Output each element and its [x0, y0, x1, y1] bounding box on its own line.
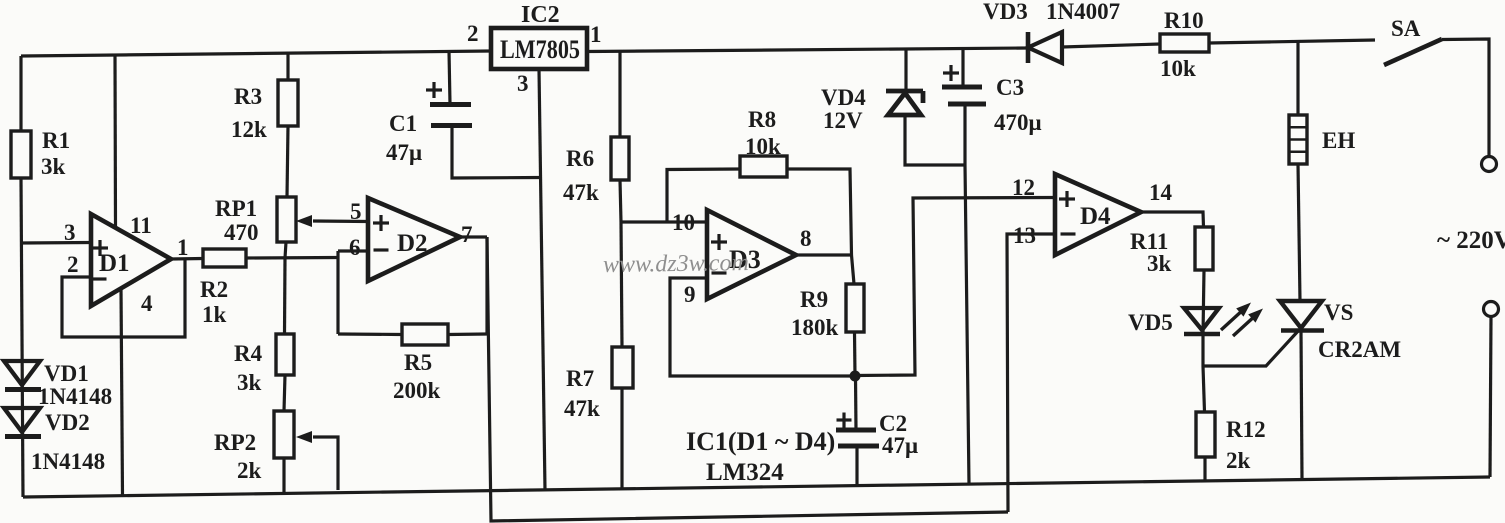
svg-text:2: 2	[467, 21, 479, 46]
resistor R8	[740, 156, 787, 177]
wire R8 right down to output	[787, 169, 852, 255]
wire VS gate	[1203, 330, 1299, 366]
svg-text:R3: R3	[234, 84, 262, 109]
wire D1 pin11 supply	[113, 55, 117, 228]
wire D2 output	[460, 235, 487, 238]
svg-text:3: 3	[517, 71, 529, 96]
voltage regulator IC2 LM7805	[491, 28, 587, 69]
svg-text:7: 7	[461, 222, 473, 247]
wire node to R7	[621, 222, 622, 347]
wire C2 top	[854, 376, 858, 430]
terminal circle bottom	[1484, 302, 1499, 317]
svg-text:12: 12	[1012, 175, 1035, 200]
wire RP2 bottom to ground	[282, 458, 285, 494]
switch SA blade	[1384, 39, 1442, 65]
resistor R7	[612, 347, 633, 388]
svg-text:VD5: VD5	[1128, 310, 1173, 335]
svg-text:SA: SA	[1391, 16, 1421, 41]
svg-text:1N4148: 1N4148	[31, 449, 105, 474]
minus sign D2 inverting input	[374, 248, 389, 251]
svg-text:VD4: VD4	[821, 85, 866, 110]
resistor R4	[276, 334, 294, 375]
resistor R9	[846, 284, 864, 332]
wire R2 to node	[246, 256, 338, 260]
svg-text:www.dz3w.com: www.dz3w.com	[603, 250, 749, 278]
svg-text:R7: R7	[566, 366, 594, 391]
wire D2 pin6 input	[338, 249, 368, 252]
capacitor C3 bottom plate	[948, 102, 986, 107]
svg-text:2: 2	[67, 252, 79, 277]
wire R10 to switch	[1209, 40, 1375, 43]
wire D3 pin9 loop	[670, 278, 855, 376]
wire IC2 pin3 to ground	[539, 69, 545, 490]
svg-text:12k: 12k	[231, 117, 267, 142]
svg-text:200k: 200k	[393, 378, 441, 403]
wire VD5 to gate node	[1201, 335, 1204, 366]
wire top supply rail (right section)	[587, 48, 1028, 52]
op-amp D2	[368, 198, 460, 281]
op-amp D4	[1055, 174, 1141, 255]
wire node to R4	[283, 258, 287, 334]
resistor R3	[278, 80, 298, 126]
wire D4 pin13 input	[1007, 234, 1055, 512]
minus sign D1 inverting input	[92, 277, 107, 280]
plus sign D1 noninverting input	[92, 240, 108, 256]
svg-text:LM324: LM324	[706, 459, 784, 486]
svg-text:11: 11	[130, 213, 152, 238]
wire output to R9	[852, 255, 855, 284]
plus sign C3	[943, 65, 959, 81]
svg-text:3k: 3k	[237, 370, 262, 395]
resistor R1	[11, 131, 31, 178]
wire VD4 bottom to C3 line	[905, 115, 965, 165]
wire R11 to VD5	[1203, 270, 1204, 335]
svg-text:12V: 12V	[823, 108, 863, 133]
svg-text:1: 1	[590, 22, 602, 47]
svg-text:R4: R4	[234, 341, 263, 366]
svg-text:D4: D4	[1080, 203, 1111, 230]
capacitor C2 plus plate	[836, 428, 876, 433]
potentiometer RP2	[274, 411, 294, 458]
wire R3 top	[286, 53, 289, 81]
svg-text:470: 470	[224, 220, 259, 245]
resistor R11	[1195, 227, 1213, 270]
svg-text:R8: R8	[748, 107, 776, 132]
wire R9 to node	[853, 332, 857, 376]
svg-text:D2: D2	[397, 230, 428, 257]
resistor R10	[1160, 34, 1209, 52]
plus sign D4 noninverting input	[1059, 191, 1075, 207]
wire R5 left	[338, 332, 402, 336]
svg-text:8: 8	[800, 226, 812, 251]
svg-text:47μ: 47μ	[882, 433, 918, 458]
svg-text:9: 9	[684, 282, 696, 307]
svg-text:10k: 10k	[1160, 56, 1196, 81]
diode VD1 1N4148	[4, 361, 40, 385]
svg-text:EH: EH	[1322, 128, 1355, 153]
wire D1 pin3 input	[21, 241, 91, 245]
wire R6 to node	[620, 180, 621, 222]
wire C1 bottom to pin3 line	[452, 126, 542, 178]
LED VD5	[1184, 308, 1219, 330]
svg-text:R6: R6	[566, 146, 594, 171]
svg-text:47k: 47k	[563, 180, 599, 205]
diode VD3 1N4007	[1026, 32, 1031, 63]
wire left rail upper (to R1)	[19, 56, 22, 132]
svg-text:3: 3	[64, 220, 76, 245]
resistor R5	[402, 324, 448, 345]
svg-text:5: 5	[350, 199, 362, 224]
svg-text:VD3: VD3	[983, 0, 1028, 24]
svg-text:1: 1	[177, 235, 189, 260]
wire R8 feedback left	[667, 169, 740, 222]
capacitor C1 plus plate	[430, 102, 471, 107]
wire node to R5 line	[336, 251, 339, 334]
LED VD5 light arrows	[1221, 309, 1244, 330]
wire VD4 top	[904, 49, 907, 90]
wire R3 to RP1	[287, 126, 288, 197]
svg-text:4: 4	[141, 291, 153, 316]
resistor R12	[1196, 412, 1215, 457]
svg-text:2k: 2k	[237, 458, 262, 483]
wire R4 to RP2	[284, 375, 285, 411]
svg-text:IC1(D1 ~ D4): IC1(D1 ~ D4)	[686, 427, 835, 456]
svg-text:47k: 47k	[564, 396, 600, 421]
wire R5 right to output	[448, 332, 487, 336]
capacitor C1 bottom plate	[431, 123, 472, 128]
wire D4 output to R11	[1141, 212, 1204, 227]
wire bottom terminal to ground rail	[1490, 317, 1491, 477]
wire RP2 wiper arrow to ground	[313, 437, 338, 490]
svg-text:10: 10	[672, 210, 695, 235]
svg-text:D1: D1	[99, 250, 130, 277]
wire left rail through VD1/VD2 to ground	[21, 178, 23, 497]
thyristor VS anode triangle	[1280, 301, 1322, 328]
wire D3 pin10 input	[621, 220, 707, 223]
resistor R6	[611, 137, 629, 180]
wire ground rail (bottom)	[23, 477, 1490, 497]
svg-text:1N4007: 1N4007	[1046, 0, 1120, 24]
wire C2 to ground	[855, 446, 858, 486]
svg-text:R5: R5	[404, 350, 432, 375]
heating element EH	[1289, 115, 1307, 164]
svg-text:1N4148: 1N4148	[38, 384, 112, 409]
svg-text:C1: C1	[389, 111, 417, 136]
svg-text:470μ: 470μ	[994, 110, 1042, 135]
svg-text:3k: 3k	[1147, 251, 1172, 276]
wire top supply rail (left section)	[21, 51, 491, 56]
wire RP1 wiper arrow	[313, 219, 368, 223]
svg-text:6: 6	[349, 235, 361, 260]
plus sign D3 noninverting input	[711, 234, 727, 250]
svg-text:R1: R1	[42, 128, 70, 153]
wire D1 feedback loop	[62, 259, 185, 338]
svg-text:R2: R2	[200, 277, 228, 302]
svg-text:~ 220V: ~ 220V	[1437, 227, 1505, 254]
svg-text:1k: 1k	[202, 302, 227, 327]
wire RP1 bottom to node	[285, 242, 286, 258]
node junction dot R9/C2/D4	[850, 371, 861, 382]
wire C1 top	[449, 51, 450, 104]
resistor R2	[203, 249, 246, 267]
wire switch to terminal	[1442, 39, 1489, 156]
wire C3 top	[961, 49, 964, 87]
op-amp D1	[91, 214, 171, 306]
op-amp D3	[707, 210, 796, 299]
wire R6 top	[618, 52, 621, 137]
minus sign D4 inverting input	[1061, 232, 1076, 235]
terminal circle top	[1482, 157, 1497, 172]
svg-text:LM7805: LM7805	[500, 35, 580, 64]
svg-text:R12: R12	[1226, 417, 1266, 442]
wire VS cathode to ground	[1301, 331, 1302, 479]
svg-text:CR2AM: CR2AM	[1318, 337, 1401, 362]
plus sign C1	[426, 82, 442, 98]
svg-text:2k: 2k	[1226, 448, 1251, 473]
wire D3 output	[796, 253, 852, 256]
svg-text:RP2: RP2	[214, 430, 256, 455]
svg-text:C3: C3	[996, 75, 1024, 100]
svg-text:VD1: VD1	[44, 361, 89, 386]
wire D2-output bus along bottom	[487, 237, 1008, 521]
thyristor VS cathode bar	[1281, 328, 1324, 333]
zener diode VD4	[888, 93, 921, 115]
potentiometer RP1	[277, 197, 296, 242]
diode VD2 1N4148	[4, 408, 40, 432]
svg-text:R10: R10	[1164, 8, 1204, 33]
wire D1 pin4 to ground	[121, 288, 123, 496]
wire node to R12	[1203, 366, 1205, 412]
svg-text:IC2: IC2	[521, 2, 560, 28]
svg-text:VS: VS	[1324, 300, 1353, 325]
wire node to D4 pin12	[855, 198, 1055, 376]
wire EH top	[1296, 42, 1299, 116]
svg-text:14: 14	[1149, 180, 1173, 205]
capacitor C2 bottom plate	[838, 444, 879, 449]
wire C3 to ground	[965, 104, 969, 484]
capacitor C3 plus plate	[942, 85, 982, 90]
svg-text:180k: 180k	[791, 315, 839, 340]
svg-text:VD2: VD2	[45, 410, 90, 435]
wire D1 output	[171, 257, 203, 261]
svg-text:10k: 10k	[745, 134, 781, 159]
svg-text:RP1: RP1	[215, 196, 257, 221]
svg-text:R9: R9	[800, 287, 828, 312]
wire R12 to ground	[1203, 457, 1206, 481]
wire EH to VS anode	[1298, 164, 1300, 301]
plus sign D2 noninverting input	[373, 215, 389, 231]
plus sign C2	[837, 413, 852, 428]
minus sign D3 inverting input	[712, 271, 727, 274]
wire VD3 to R10	[1062, 44, 1160, 47]
svg-text:47μ: 47μ	[386, 140, 422, 165]
wire R7 to ground	[620, 388, 623, 489]
svg-text:3k: 3k	[41, 154, 66, 179]
